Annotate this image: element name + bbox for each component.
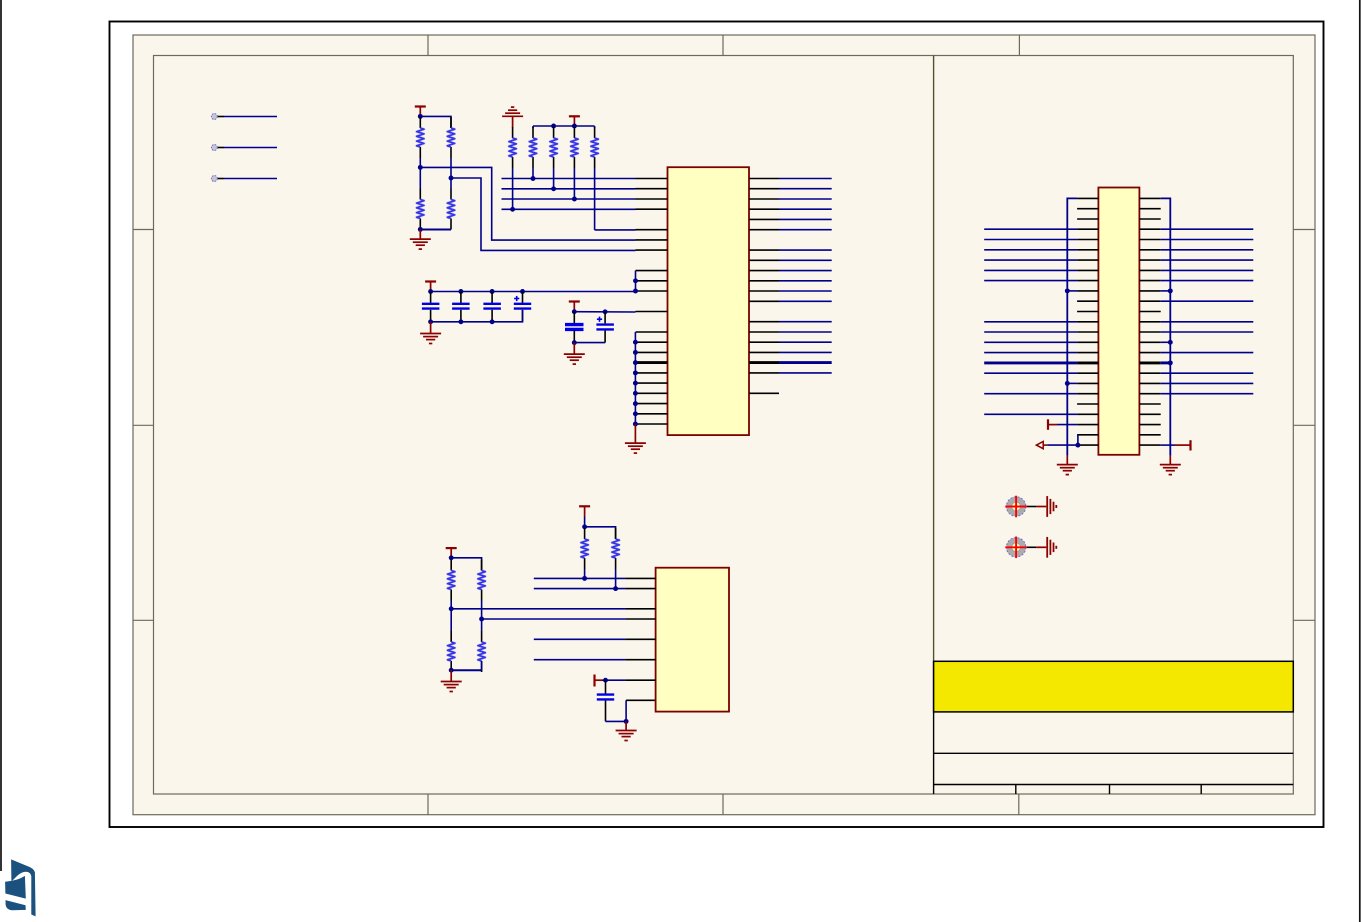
wire R13 bottom to mid <box>481 601 483 620</box>
wire C7 bottom to gnd node <box>606 720 627 722</box>
capacitor C2 <box>452 292 470 322</box>
resistor R8 <box>571 126 578 168</box>
node cap bank2 left <box>572 309 577 314</box>
wire left-mid node to U1 pin 7 <box>420 167 635 240</box>
node U1 gnd tie pin18 <box>633 360 638 365</box>
sheet background and outer frame <box>133 35 1315 815</box>
power bar VCC8 at J1 row23 <box>1048 419 1058 430</box>
wire cap bank 1 bottom rail <box>431 310 523 322</box>
node C7 top <box>603 678 608 683</box>
node R6 bus1 <box>531 176 536 181</box>
power bar VCC7 small <box>595 675 603 687</box>
wire R9 down to U1 pin 6 row <box>594 168 596 230</box>
node VCC6 <box>449 555 454 560</box>
wire R11 to U2 pin2 row <box>615 569 617 589</box>
ground GND7 left bus <box>1057 456 1078 475</box>
frame zone tick bottom 1 <box>427 794 429 815</box>
frame zone tick left 3 <box>133 619 154 621</box>
wire bus line 2 to U1 <box>502 188 636 190</box>
frame zone tick top 3 <box>1018 35 1020 56</box>
node left bus row10 <box>1065 288 1070 293</box>
capacitor C5 bulk <box>565 312 584 343</box>
resistor R13 <box>478 560 485 601</box>
power bar VCC3 <box>425 282 436 292</box>
power bar VCC4 <box>569 302 580 312</box>
node R10 row1 <box>582 576 587 581</box>
wire R9 row to U1 pin 6 <box>595 229 636 231</box>
frame zone tick left 1 <box>133 229 154 231</box>
J1 left bus wire <box>1067 198 1077 455</box>
node rail R7 <box>551 124 556 129</box>
node cap bottom rail x492 <box>490 319 495 324</box>
title block row line 2 <box>934 784 1294 786</box>
node R5 on bus 4 <box>510 207 515 212</box>
frame zone tick right 3 <box>1293 619 1315 621</box>
wire U2 row3 <box>451 608 625 610</box>
wire J1 left bus to pin row10 <box>1067 290 1077 292</box>
resistor R10 <box>581 528 588 569</box>
resistor R2 <box>447 117 454 158</box>
input arrow at J1 row25 <box>1036 442 1047 449</box>
node bottom rail <box>418 227 423 232</box>
ground GND8 right bus <box>1160 456 1181 475</box>
resistor R15 <box>478 619 485 672</box>
resistor R1 <box>417 117 424 158</box>
page left edge line <box>0 0 2 871</box>
J1 right bus wire <box>1161 198 1171 455</box>
power bar VCC5 <box>579 506 590 516</box>
resistor R5 <box>509 127 516 168</box>
node R8 bus3 <box>572 197 577 202</box>
J1 left pin stubs <box>1077 198 1098 445</box>
ground GND4 under U1 <box>625 424 646 453</box>
node U1 gnd tie pin16 <box>633 340 638 345</box>
page right edge line <box>1359 0 1361 922</box>
wire J1 right pin row17 to bus thick <box>1161 361 1171 364</box>
capacitor C1 <box>422 292 440 322</box>
sheet section divider line <box>933 56 935 662</box>
mounting hole MH1 <box>1005 496 1027 518</box>
node right bus row17 <box>1168 360 1173 365</box>
node U1 gnd tie pin17 <box>633 350 638 355</box>
wire J1 right pin row15 to bus <box>1161 341 1171 343</box>
node U1 tie pin11 <box>633 289 638 294</box>
node cap bank2 bottom <box>572 340 577 345</box>
node U1 gnd tie pin24 <box>633 422 638 427</box>
wire R6 to bus 1 <box>532 168 534 179</box>
resistor R9 <box>591 126 598 168</box>
resistor R14 <box>448 609 455 672</box>
J1 left net wires <box>984 229 1077 414</box>
wire pull-up rail <box>533 125 595 127</box>
node cap bottom rail x460 <box>458 319 463 324</box>
node cap bank2 right <box>603 309 608 314</box>
node cap bottom rail x430 <box>428 319 433 324</box>
node U1 gnd tie pin22 <box>633 401 638 406</box>
node U1 gnd tie pin21 <box>633 391 638 396</box>
ground GND2 <box>420 322 441 344</box>
node C7 gnd <box>624 719 629 724</box>
node left bus row19 <box>1065 381 1070 386</box>
wire R3/R4 bottoms to ground rail <box>420 229 451 231</box>
wire R14/R15 bottom rail <box>451 669 481 671</box>
wire right-mid node to U1 pin 8 <box>451 178 636 250</box>
wire U1 ground tie <box>634 332 636 424</box>
node cap top rail x492 <box>490 289 495 294</box>
frame zone tick bottom 3 <box>1018 794 1020 815</box>
title block left edge <box>933 661 935 794</box>
title block bottom cell divider 3 <box>1200 785 1202 795</box>
wire U2 row5 <box>534 638 626 640</box>
wire VCC1 node to R2 top <box>420 116 451 121</box>
node U1 gnd tie pin19 <box>633 370 638 375</box>
resistor R6 <box>529 126 536 168</box>
frame zone tick top 1 <box>427 35 429 56</box>
wire VCC7 to U2 pin7 <box>602 679 625 681</box>
frame zone tick bottom 2 <box>722 794 724 815</box>
node R14 bottom <box>449 668 454 673</box>
title block bottom cell divider 1 <box>1015 785 1017 795</box>
J1 right pin stubs <box>1139 198 1160 445</box>
wire MH2 to chassis ground <box>1027 546 1046 548</box>
wire bus line 3 to U1 <box>502 198 636 200</box>
node rail R8 <box>572 124 577 129</box>
U1 right net wires <box>779 179 832 373</box>
wire R2 bottom to mid node <box>450 158 452 178</box>
node R12 mid <box>449 606 454 611</box>
power bar VCC1 <box>415 107 426 117</box>
chassis ground symbol MH1 <box>1047 496 1056 517</box>
title block bottom cell divider 2 <box>1109 785 1111 795</box>
title block row line 1 <box>934 752 1294 754</box>
input pin P3 <box>211 176 277 182</box>
node J1 row25 junction <box>1075 443 1080 448</box>
wire J1 row24 jumper down <box>1077 435 1079 445</box>
wire J1 left bus to pin row19 <box>1067 382 1077 384</box>
wire R1 bottom to mid node <box>419 158 421 167</box>
frame zone tick right 1 <box>1293 229 1315 231</box>
node cap top rail x522 <box>520 289 525 294</box>
wire MH1 to chassis ground <box>1027 506 1046 508</box>
frame zone tick left 2 <box>133 424 154 426</box>
wire VCC6 to R13 top <box>451 558 481 561</box>
node VCC5 <box>582 524 587 529</box>
resistor R7 <box>550 126 557 168</box>
wire bus line 4 to U1 <box>502 208 636 210</box>
wire R5 to bus line 4 <box>512 168 514 209</box>
wire cap bank 1 top rail <box>431 291 636 293</box>
resistor R4 <box>447 178 454 230</box>
chassis ground symbol MH2 <box>1047 537 1056 558</box>
wire gnd node up to U2 pin8 <box>626 700 656 721</box>
node R13 mid <box>479 617 484 622</box>
U1 right pin stubs <box>749 179 779 394</box>
U2 pin stubs <box>625 578 655 680</box>
connector J1 body <box>1098 188 1139 455</box>
sheet inner frame <box>154 56 1294 795</box>
frame zone tick top 2 <box>722 35 724 56</box>
node R11 row2 <box>613 586 618 591</box>
capacitor C3 <box>483 292 501 322</box>
earth ground symbol on R5 <box>502 107 523 127</box>
node R2/R4 mid <box>449 176 454 181</box>
wire cap bank 2 top rail <box>574 311 635 313</box>
ground GND1 <box>410 229 431 249</box>
node right bus row10 <box>1168 288 1173 293</box>
power bar VCC6 <box>446 548 457 558</box>
capacitor C7 <box>597 680 614 721</box>
wire R7 to bus 2 <box>553 168 555 189</box>
node cap top rail x460 <box>458 289 463 294</box>
ground GND3 <box>564 343 585 365</box>
title block yellow banner <box>934 661 1294 712</box>
node U1 gnd tie pin23 <box>633 411 638 416</box>
resistor R11 <box>612 528 619 569</box>
IC U1 body <box>668 167 750 435</box>
IC U2 body <box>656 568 729 712</box>
frame zone tick right 2 <box>1293 424 1315 426</box>
wire J1 right pin row10 to bus <box>1161 290 1171 292</box>
wire J1 right row25 to power bar <box>1161 444 1190 446</box>
input pin P2 <box>211 145 277 151</box>
wire R15 lead bottom <box>481 661 483 670</box>
wire U2 row4 <box>482 618 626 620</box>
ground GND6 <box>616 721 637 740</box>
mounting hole MH2 <box>1005 537 1027 559</box>
wire U1 pins 9-11 tie <box>635 271 637 291</box>
power bar VCC9 at J1 row25 <box>1189 440 1191 450</box>
wire U2 row2 <box>534 588 626 590</box>
wire VCC5 to R10/R11 tops <box>585 517 616 531</box>
wire R8 to bus 3 <box>573 168 575 199</box>
node cap top rail x430 <box>428 289 433 294</box>
capacitor C4 polarized <box>514 292 531 322</box>
resistor R12 <box>448 560 455 601</box>
wire R12 bottom to mid <box>450 601 452 609</box>
wire R10 to U2 pin1 row <box>584 569 586 578</box>
wire VCC8 to J1 pin row23 <box>1058 424 1078 426</box>
ground GND5 <box>441 670 462 691</box>
schematic sheet outer border <box>110 22 1324 828</box>
wire U2 row1 <box>534 577 626 579</box>
capacitor C6 polarized <box>596 312 614 343</box>
node U1 tie pin10 <box>633 278 638 283</box>
wire arrow to J1 pin row25 <box>1047 444 1077 446</box>
wire cap bank 2 bottom rail <box>574 342 605 344</box>
wire bus line 1 to U1 <box>502 178 636 180</box>
resistor R3 <box>417 167 424 229</box>
power bar VCC2 <box>569 116 580 126</box>
node at VCC1 <box>418 114 423 119</box>
input pin P1 <box>211 114 277 120</box>
node R1/R3 mid <box>418 165 423 170</box>
J1 right net wires <box>1161 229 1254 394</box>
U1 left pin stubs <box>636 179 668 425</box>
node right bus row15 <box>1168 340 1173 345</box>
node U1 gnd tie pin20 <box>633 381 638 386</box>
ST logo bottom left <box>5 859 35 916</box>
wire U2 row6 <box>534 659 626 661</box>
node R7 bus2 <box>551 186 556 191</box>
